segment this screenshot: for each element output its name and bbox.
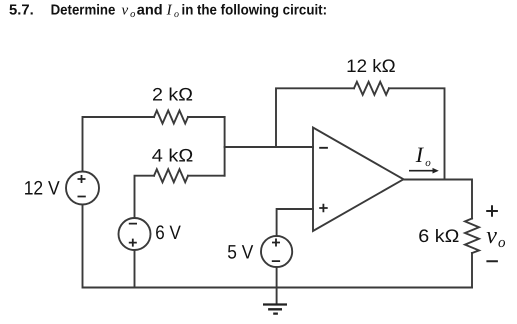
svg-text:12 V: 12 V (24, 177, 60, 199)
svg-text:6 V: 6 V (155, 222, 181, 244)
svg-text:Determine: Determine (51, 2, 116, 18)
svg-text:v: v (486, 223, 497, 249)
svg-text:12 kΩ: 12 kΩ (346, 56, 396, 76)
svg-text:v: v (122, 2, 129, 18)
svg-text:5.7.: 5.7. (9, 2, 34, 18)
svg-text:and: and (137, 2, 163, 18)
svg-text:I: I (415, 142, 425, 167)
svg-text:o: o (425, 157, 431, 169)
svg-text:2 kΩ: 2 kΩ (152, 85, 193, 105)
svg-text:o: o (498, 235, 506, 251)
svg-text:6 kΩ: 6 kΩ (418, 226, 459, 246)
svg-text:4 kΩ: 4 kΩ (152, 146, 194, 166)
svg-text:o: o (130, 9, 135, 20)
svg-text:5 V: 5 V (227, 242, 253, 264)
svg-text:I: I (166, 2, 173, 18)
svg-text:in the following circuit:: in the following circuit: (182, 2, 328, 18)
svg-text:o: o (174, 9, 179, 20)
